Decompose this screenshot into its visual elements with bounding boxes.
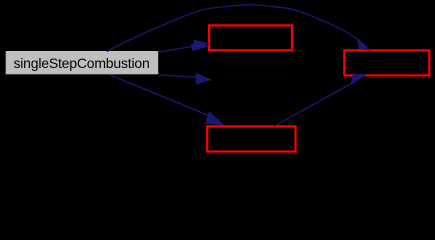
wire: edge singleStepCombustion to top node	[158, 40, 211, 53]
svg-text:singleStepCombustion: singleStepCombustion	[13, 55, 149, 71]
wire: curved edge singleStepCombustion to right node (top arc)	[107, 5, 372, 52]
wire: edge singleStepCombustion to bottom node	[110, 75, 224, 125]
node singleStepCombustion (current node, gray)	[6, 51, 159, 74]
wire: edge bottom node to right node	[275, 74, 368, 126]
node bottom (red, truncated)	[207, 126, 295, 151]
node right (red, truncated)	[344, 50, 429, 75]
node top (red, truncated)	[209, 25, 292, 50]
wire: edge singleStepCombustion to hidden middle node	[158, 73, 213, 85]
